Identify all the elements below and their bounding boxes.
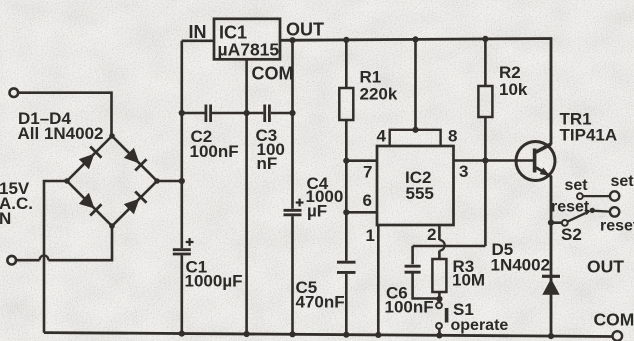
- svg-text:10k: 10k: [499, 80, 528, 99]
- transistor TR1 circle: [516, 142, 555, 181]
- junction top rail 555 supply: [412, 36, 418, 42]
- junction pins 4-8 bracket: [412, 127, 418, 133]
- svg-text:220k: 220k: [360, 85, 398, 104]
- svg-text:S2: S2: [561, 225, 582, 244]
- svg-text:OUT: OUT: [587, 257, 624, 277]
- junction rail pin1: [375, 332, 381, 338]
- junction bridge top corner: [109, 133, 115, 139]
- junction rail COM line: [244, 331, 250, 337]
- diode D1 top-left edge: [79, 154, 95, 170]
- terminal AC input bottom: [7, 256, 16, 265]
- terminal COM: [613, 331, 623, 341]
- svg-text:All 1N4002: All 1N4002: [18, 124, 104, 143]
- junction cap row left: [179, 110, 185, 116]
- capacitor C5: [337, 262, 356, 272]
- svg-text:COM: COM: [594, 310, 634, 330]
- svg-text:100nF: 100nF: [190, 142, 239, 161]
- transistor TR1 collector diagonal: [536, 145, 551, 153]
- capacitor C6: [405, 266, 421, 272]
- svg-text:µA7815: µA7815: [218, 40, 280, 60]
- transistor TR1 base bar: [533, 149, 537, 173]
- resistor R2: [478, 86, 492, 117]
- svg-text:4: 4: [377, 127, 387, 146]
- op-amp IC2 555 box: [377, 146, 454, 225]
- wire S2 common stub: [554, 221, 562, 224]
- junction bridge right corner: [154, 178, 160, 184]
- capacitor C3: [265, 105, 270, 123]
- wire AC bottom with hop over ground drop: [16, 226, 112, 260]
- wire C4 branch vertical: [291, 40, 294, 334]
- junction bridge output: [179, 178, 185, 184]
- wire IN node vertical: [181, 41, 184, 334]
- wire COM vertical: [245, 59, 248, 334]
- junction pin6: [343, 209, 349, 215]
- wire S1 to ground rail: [438, 329, 441, 336]
- capacitor C4: [284, 210, 302, 215]
- wire supply to pins 4 and 8: [414, 39, 417, 129]
- junction rail C4: [289, 331, 295, 337]
- wire AC top to bridge top corner: [18, 93, 111, 136]
- diode D4 bottom-right edge: [124, 199, 140, 215]
- capacitor C2: [206, 105, 211, 123]
- wire pin3 node to C6 horizontal: [413, 245, 486, 248]
- wire R2 branch vertical: [484, 39, 487, 246]
- svg-text:reset: reset: [551, 199, 590, 216]
- switch S2 common contact: [562, 220, 568, 226]
- bridge diamond D1-D4: [67, 136, 157, 226]
- svg-text:TIP41A: TIP41A: [560, 126, 618, 145]
- wire IN to IC1: [182, 39, 214, 42]
- switch S1 contact top: [436, 303, 442, 309]
- svg-text:nF: nF: [257, 154, 278, 173]
- svg-text:operate: operate: [451, 317, 509, 334]
- junction cap row COM: [244, 110, 250, 116]
- terminal reset: [610, 207, 619, 216]
- resistor R3: [432, 259, 446, 292]
- svg-text:OUT: OUT: [286, 20, 324, 40]
- junction top rail R2: [482, 36, 488, 42]
- svg-text:100nF: 100nF: [385, 298, 434, 317]
- transistor TR1 emitter: [536, 168, 551, 337]
- svg-text:set: set: [611, 173, 634, 190]
- switch S2 arm arrowhead: [584, 210, 591, 215]
- junction rail C5: [343, 332, 349, 338]
- wire pin2 down with hop: [438, 225, 441, 259]
- wire capacitor row: [182, 112, 293, 115]
- junction rail C1: [179, 331, 185, 337]
- wire R3 bottom to S1: [438, 292, 441, 302]
- junction emitter S2: [548, 220, 554, 226]
- wire pin6 stub: [346, 211, 377, 214]
- plus sign C1: [186, 199, 304, 246]
- svg-text:1: 1: [366, 226, 375, 245]
- wire pins 4-8 bracket: [390, 130, 441, 146]
- switch S1 bar: [445, 308, 449, 323]
- wire hop: [40, 255, 49, 260]
- wire hop pin2: [439, 240, 444, 251]
- wire set contact to terminal: [583, 195, 610, 197]
- junction pin7: [343, 158, 349, 164]
- junction bridge bottom corner: [109, 223, 115, 229]
- svg-text:1N4002: 1N4002: [491, 256, 551, 275]
- switch S1 contact bottom: [436, 323, 442, 329]
- junction bridge left corner: [64, 178, 70, 184]
- plus sign C4: [296, 199, 304, 207]
- wire pin3 to base: [454, 159, 534, 162]
- switch S2 set contact: [577, 193, 583, 199]
- svg-text:µF: µF: [307, 202, 327, 221]
- wire C6 branch: [413, 246, 440, 299]
- diode D3 bottom-left edge: [79, 193, 95, 209]
- junction rail D5: [548, 333, 554, 339]
- junction cap row right: [289, 110, 295, 116]
- svg-text:470nF: 470nF: [296, 293, 345, 312]
- svg-text:N: N: [0, 209, 11, 228]
- svg-text:set: set: [565, 177, 589, 194]
- svg-text:3: 3: [459, 162, 468, 181]
- junction R3 C6: [436, 296, 442, 302]
- junction top rail C4: [289, 37, 295, 43]
- switch S2 arm: [568, 213, 586, 222]
- junction pin3 R2: [482, 157, 488, 163]
- terminal AC input top: [10, 88, 19, 97]
- wire pin7 stub: [346, 159, 377, 162]
- svg-text:IN: IN: [189, 22, 207, 42]
- switch S2 arm pivot dot: [590, 208, 595, 213]
- svg-text:7: 7: [363, 163, 372, 182]
- switch S2 reset wire: [595, 210, 610, 213]
- wire R1 branch vertical: [345, 40, 348, 335]
- diode D5 triangle: [542, 279, 559, 295]
- transistor TR1 emitter arrow: [540, 168, 551, 176]
- junction rail S1: [436, 332, 442, 338]
- svg-text:555: 555: [406, 184, 434, 203]
- wire pin1 to ground: [377, 225, 380, 335]
- wire top rail OUT to collector: [280, 39, 551, 152]
- op IC1 box: [214, 19, 280, 60]
- wire bottom rail: [44, 333, 613, 337]
- capacitor C1: [173, 250, 191, 254]
- svg-text:2: 2: [427, 225, 436, 244]
- resistor R1: [339, 88, 353, 120]
- svg-text:COM: COM: [252, 64, 294, 84]
- diode D2 top-right edge: [124, 148, 140, 164]
- svg-text:1000µF: 1000µF: [185, 272, 243, 291]
- terminal set: [610, 191, 619, 200]
- svg-text:8: 8: [448, 127, 457, 146]
- diode D5 cathode bar: [542, 275, 560, 278]
- wire bridge plus output to IN node: [157, 180, 182, 183]
- wire bridge minus to bottom rail: [44, 181, 67, 333]
- svg-text:reset: reset: [600, 218, 634, 235]
- junction top rail R1: [343, 37, 349, 43]
- svg-text:6: 6: [363, 191, 372, 210]
- svg-text:10M: 10M: [452, 271, 485, 290]
